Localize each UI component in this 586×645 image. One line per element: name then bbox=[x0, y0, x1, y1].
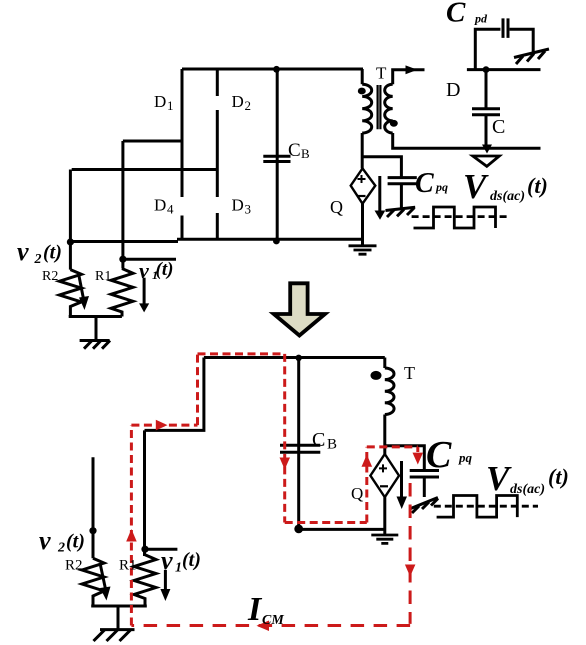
svg-text:Q: Q bbox=[351, 484, 363, 503]
svg-text:R2: R2 bbox=[65, 558, 83, 574]
svg-text:3: 3 bbox=[245, 202, 252, 217]
svg-text:I: I bbox=[247, 591, 263, 628]
svg-text:C: C bbox=[312, 429, 325, 451]
svg-text:2: 2 bbox=[245, 98, 252, 113]
svg-text:pq: pq bbox=[435, 180, 448, 194]
svg-text:D: D bbox=[232, 196, 244, 215]
svg-text:2: 2 bbox=[57, 541, 65, 556]
svg-text:B: B bbox=[327, 437, 337, 453]
svg-text:C: C bbox=[492, 116, 505, 138]
svg-text:C: C bbox=[415, 168, 434, 199]
svg-text:4: 4 bbox=[167, 202, 174, 217]
svg-text:D: D bbox=[154, 92, 166, 111]
svg-text:v: v bbox=[39, 526, 51, 555]
svg-text:T: T bbox=[376, 64, 387, 83]
svg-text:C: C bbox=[288, 140, 301, 161]
svg-text:ds(ac): ds(ac) bbox=[510, 482, 545, 497]
svg-text:(t): (t) bbox=[156, 259, 174, 280]
svg-text:(t): (t) bbox=[43, 242, 62, 264]
svg-text:1: 1 bbox=[167, 98, 174, 113]
svg-text:R2: R2 bbox=[42, 269, 58, 284]
svg-text:C: C bbox=[446, 0, 466, 29]
svg-text:C: C bbox=[426, 434, 452, 476]
svg-text:pq: pq bbox=[458, 450, 473, 465]
svg-text:(t): (t) bbox=[527, 173, 548, 198]
svg-text:R1: R1 bbox=[95, 269, 111, 284]
svg-text:ds(ac): ds(ac) bbox=[490, 189, 525, 204]
svg-text:D: D bbox=[232, 92, 244, 111]
svg-text:CM: CM bbox=[262, 613, 284, 628]
svg-text:v: v bbox=[161, 546, 173, 575]
svg-text:v: v bbox=[17, 237, 29, 266]
svg-text:D: D bbox=[446, 79, 460, 101]
svg-text:(t): (t) bbox=[182, 549, 201, 571]
svg-text:T: T bbox=[404, 363, 415, 383]
svg-text:v: v bbox=[139, 258, 149, 283]
svg-text:2: 2 bbox=[34, 252, 42, 267]
svg-text:B: B bbox=[301, 146, 310, 161]
svg-text:Q: Q bbox=[330, 197, 343, 217]
svg-text:V: V bbox=[463, 167, 489, 206]
svg-text:(t): (t) bbox=[548, 464, 569, 489]
svg-text:V: V bbox=[486, 459, 512, 498]
svg-text:pd: pd bbox=[474, 11, 488, 25]
svg-text:1: 1 bbox=[175, 561, 182, 576]
svg-text:(t): (t) bbox=[66, 531, 85, 553]
svg-text:D: D bbox=[154, 196, 166, 215]
svg-text:R1: R1 bbox=[119, 558, 137, 574]
